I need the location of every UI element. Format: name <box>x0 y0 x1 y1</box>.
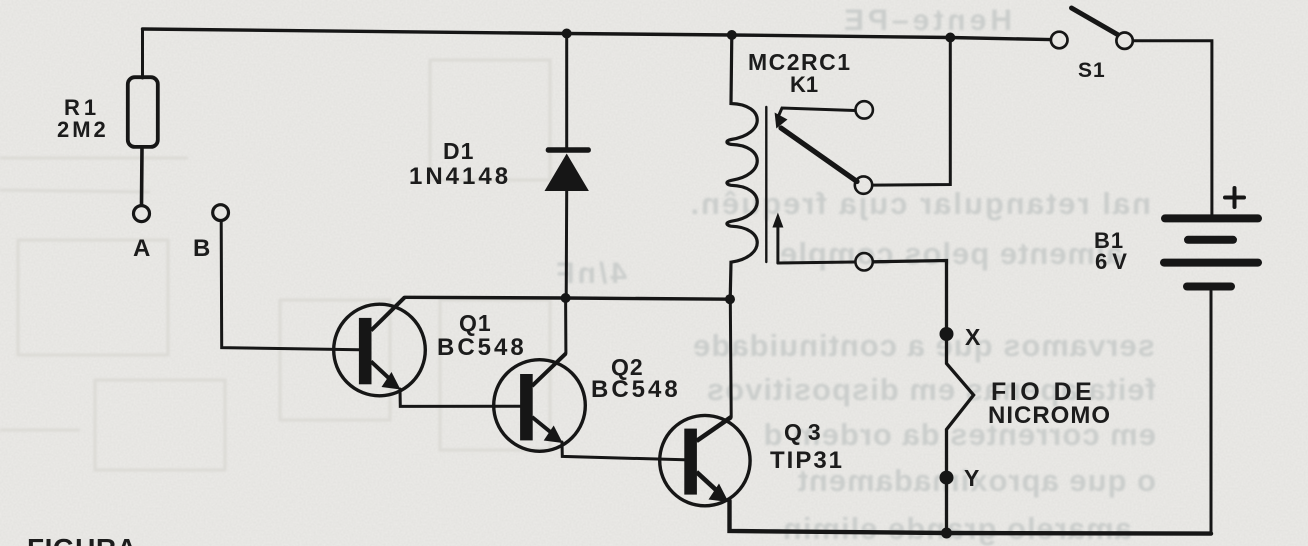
terminal B <box>213 205 229 221</box>
svg-text:2M2: 2M2 <box>57 117 109 142</box>
wire: top supply rail <box>143 29 1051 40</box>
node: rail / coil <box>727 30 737 40</box>
wire: Q2 emitter to Q3 base <box>562 442 684 460</box>
switch S1 terminal left <box>1051 32 1068 49</box>
relay armature arrow <box>775 113 788 129</box>
svg-text:Y: Y <box>964 465 981 491</box>
svg-text:almente pelos comple: almente pelos comple <box>779 236 1123 271</box>
svg-text:B: B <box>193 235 210 262</box>
wire: Q2 collector riser <box>564 298 567 353</box>
svg-text:BC548: BC548 <box>437 334 527 361</box>
transistor Q2 <box>494 353 586 451</box>
svg-text:4/nF: 4/nF <box>553 257 627 290</box>
svg-text:A: A <box>133 235 150 262</box>
svg-text:X: X <box>965 324 982 350</box>
relay contact 1 <box>856 101 873 118</box>
wire: NO contact line <box>778 262 855 263</box>
node: rail / D1 <box>562 29 572 39</box>
svg-text:NICROMO: NICROMO <box>988 402 1111 429</box>
relay core <box>765 107 767 262</box>
svg-text:BC548: BC548 <box>591 376 681 403</box>
wire: bottom rail <box>730 501 1212 534</box>
relay contact 3 <box>855 253 872 270</box>
relay actuation arrow <box>776 226 779 263</box>
svg-text:Q3: Q3 <box>784 419 827 445</box>
wire: collector rail <box>405 297 730 299</box>
wire: contact 2 to supply rail <box>873 38 950 186</box>
svg-text:D1: D1 <box>443 138 474 164</box>
wire: S1 to battery positive <box>1133 41 1212 215</box>
svg-text:S1: S1 <box>1078 59 1106 82</box>
wire: contact 3 to X <box>874 261 947 328</box>
node Y terminal <box>940 471 954 485</box>
svg-text:FIGURA: FIGURA <box>27 533 137 546</box>
relay K1 coil <box>727 35 757 299</box>
wire: B to Q1 base <box>221 222 359 350</box>
svg-text:K1: K1 <box>790 72 818 97</box>
switch S1 terminal right <box>1116 33 1132 49</box>
switch S1 blade <box>1072 8 1118 35</box>
wire: Q1 emitter to Q2 base <box>400 389 520 406</box>
battery plus sign <box>1225 196 1244 200</box>
nichrome wire element <box>947 334 974 478</box>
terminal A <box>134 206 150 222</box>
transistor Q3 <box>660 415 750 505</box>
svg-text:1N4148: 1N4148 <box>409 163 511 190</box>
transistor Q1 <box>334 297 426 396</box>
node: collector rail / Q2 <box>561 293 571 303</box>
diode D1 body <box>545 147 591 191</box>
relay armature <box>781 128 857 182</box>
wire: battery negative riser <box>1210 291 1213 534</box>
wire: rail to D1 cathode <box>565 34 568 149</box>
wire: D1 anode to collector rail <box>565 191 569 298</box>
svg-text:servamos que a continuidade: servamos que a continuidade <box>692 328 1155 363</box>
svg-text:TIP31: TIP31 <box>770 447 844 474</box>
wire: R1 to probe A <box>140 147 144 205</box>
ghost bleed-through text (back of page, mirrored) <box>553 4 1156 546</box>
node X terminal <box>940 327 954 341</box>
relay contact 2 <box>855 176 872 193</box>
wire: Q3 collector riser <box>729 299 733 417</box>
svg-text:6V: 6V <box>1095 249 1132 274</box>
wire: Y to bottom rail <box>945 483 948 533</box>
node: bottom rail / nichrome <box>941 528 952 539</box>
svg-text:Hente–PE: Hente–PE <box>840 4 1012 37</box>
ghost pcb pattern bottom-left <box>0 60 550 470</box>
node: rail / contact2 <box>945 33 955 43</box>
svg-text:Q1: Q1 <box>459 310 492 336</box>
node: collector rail / coil-Q3 <box>725 294 735 304</box>
battery B1 plates <box>1164 188 1258 287</box>
resistor R1 <box>141 29 144 78</box>
relay pivot wire <box>779 108 855 116</box>
svg-text:amarelo grande elimin-: amarelo grande elimin- <box>771 511 1132 546</box>
